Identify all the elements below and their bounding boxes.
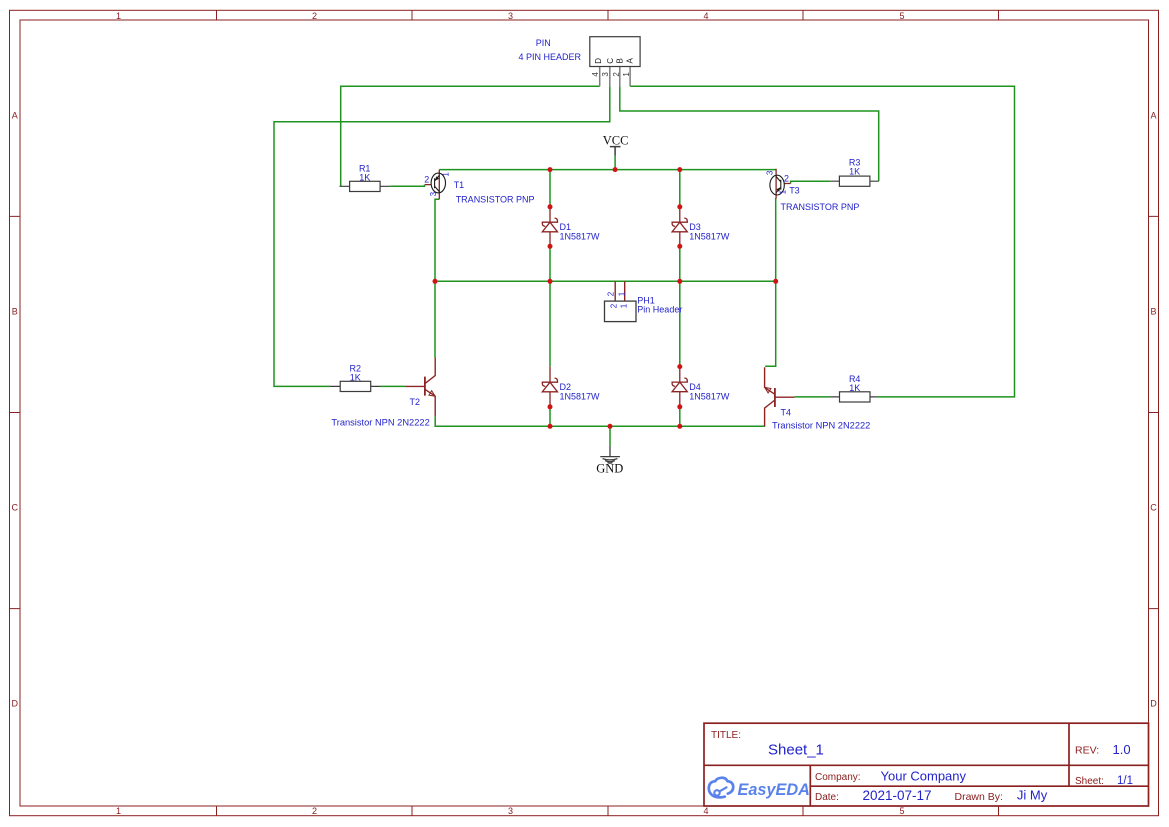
- svg-text:3: 3: [508, 11, 513, 21]
- svg-text:T2: T2: [410, 397, 421, 407]
- svg-text:A: A: [1150, 110, 1156, 120]
- svg-text:T1: T1: [454, 180, 465, 190]
- svg-text:1.0: 1.0: [1113, 742, 1131, 757]
- svg-text:5: 5: [899, 11, 904, 21]
- svg-text:VCC: VCC: [603, 133, 629, 147]
- svg-text:1N5817W: 1N5817W: [689, 231, 730, 241]
- svg-text:Drawn By:: Drawn By:: [955, 791, 1003, 803]
- svg-text:2: 2: [607, 291, 616, 296]
- svg-text:1/1: 1/1: [1117, 775, 1133, 787]
- svg-text:EasyEDA: EasyEDA: [738, 781, 810, 799]
- svg-text:3: 3: [508, 806, 513, 816]
- svg-text:1K: 1K: [849, 383, 860, 393]
- svg-text:1K: 1K: [849, 166, 860, 176]
- svg-text:TRANSISTOR PNP: TRANSISTOR PNP: [781, 202, 860, 212]
- svg-text:4: 4: [703, 11, 708, 21]
- svg-text:PIN: PIN: [536, 38, 551, 48]
- svg-text:C: C: [12, 502, 19, 512]
- svg-text:1: 1: [778, 189, 787, 194]
- svg-text:B: B: [616, 58, 625, 63]
- svg-text:Your Company: Your Company: [881, 769, 967, 784]
- svg-text:1K: 1K: [359, 172, 370, 182]
- svg-text:1: 1: [116, 11, 121, 21]
- svg-text:4: 4: [703, 806, 708, 816]
- svg-text:2: 2: [784, 174, 789, 184]
- svg-text:Ji My: Ji My: [1017, 788, 1048, 803]
- svg-text:D: D: [594, 58, 603, 64]
- svg-text:1N5817W: 1N5817W: [689, 391, 730, 401]
- svg-text:4: 4: [591, 72, 600, 77]
- svg-text:GND: GND: [596, 462, 623, 476]
- svg-text:REV:: REV:: [1075, 745, 1099, 757]
- svg-text:1: 1: [622, 72, 631, 77]
- svg-text:1: 1: [116, 806, 121, 816]
- svg-text:C: C: [606, 58, 615, 64]
- svg-text:Transistor NPN 2N2222: Transistor NPN 2N2222: [331, 418, 429, 428]
- svg-text:4 PIN HEADER: 4 PIN HEADER: [519, 52, 582, 62]
- svg-text:D: D: [12, 698, 19, 708]
- svg-text:Pin Header: Pin Header: [637, 305, 682, 315]
- svg-text:TRANSISTOR PNP: TRANSISTOR PNP: [456, 195, 535, 205]
- svg-text:1N5817W: 1N5817W: [560, 391, 601, 401]
- svg-text:T3: T3: [789, 186, 800, 196]
- svg-text:A: A: [626, 57, 635, 63]
- svg-text:1: 1: [442, 172, 451, 177]
- svg-text:2: 2: [610, 303, 619, 308]
- svg-text:1: 1: [620, 303, 629, 308]
- svg-text:3: 3: [766, 170, 775, 175]
- svg-text:D: D: [1150, 698, 1157, 708]
- svg-text:Company:: Company:: [815, 772, 861, 783]
- svg-text:3: 3: [429, 191, 438, 196]
- svg-text:T4: T4: [781, 408, 792, 418]
- svg-text:2: 2: [312, 806, 317, 816]
- svg-text:B: B: [12, 306, 18, 316]
- svg-text:C: C: [1150, 502, 1157, 512]
- svg-text:2021-07-17: 2021-07-17: [863, 788, 932, 803]
- svg-text:Sheet_1: Sheet_1: [768, 742, 824, 759]
- svg-text:2: 2: [612, 72, 621, 77]
- svg-text:B: B: [1150, 306, 1156, 316]
- svg-text:3: 3: [601, 72, 610, 77]
- svg-text:TITLE:: TITLE:: [711, 730, 741, 741]
- svg-text:5: 5: [899, 806, 904, 816]
- svg-text:1N5817W: 1N5817W: [560, 231, 601, 241]
- svg-text:A: A: [12, 110, 18, 120]
- svg-text:1K: 1K: [350, 372, 361, 382]
- svg-text:Transistor NPN 2N2222: Transistor NPN 2N2222: [772, 420, 870, 430]
- svg-text:Date:: Date:: [815, 792, 839, 803]
- svg-text:1: 1: [618, 291, 627, 296]
- svg-text:Sheet:: Sheet:: [1075, 776, 1104, 787]
- svg-text:2: 2: [424, 174, 429, 184]
- svg-text:2: 2: [312, 11, 317, 21]
